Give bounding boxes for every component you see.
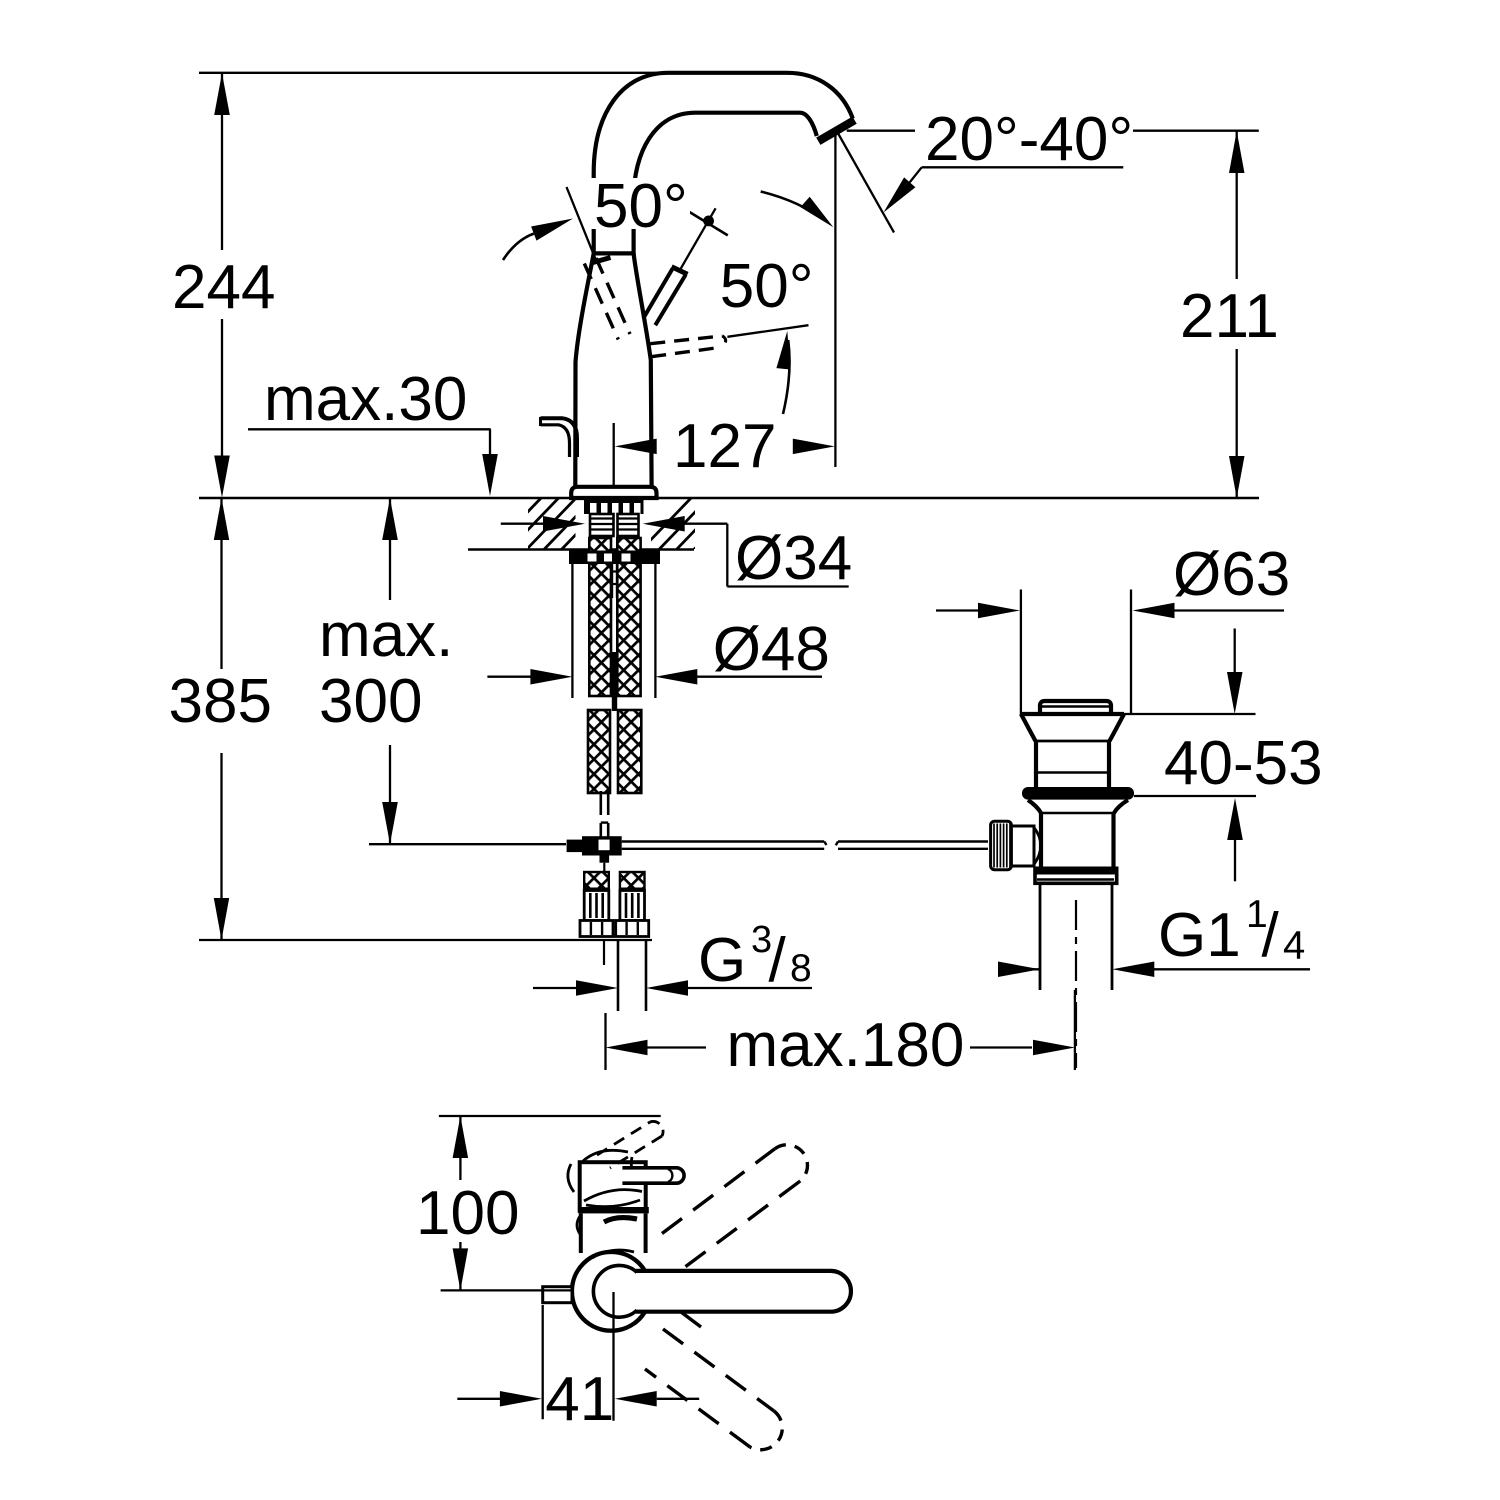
vertical reference line from nozzle: [834, 132, 836, 468]
spout inner contour: [634, 113, 817, 255]
front view hub circle: [593, 1265, 645, 1317]
pop-up rod between hoses: [611, 564, 613, 598]
svg-text:G1: G1: [1158, 901, 1241, 970]
pop-up rod lower tube: [599, 791, 602, 815]
lever cross mark: [687, 211, 728, 236]
dimension 41: [542, 1305, 544, 1419]
dashed lever (horizontal position): [650, 336, 722, 344]
dimension 211: [1236, 131, 1238, 279]
drain flange: [1021, 712, 1124, 716]
front view handle capsule: [636, 1271, 851, 1312]
svg-text:4: 4: [1283, 924, 1305, 968]
drain tail pipe: [1039, 883, 1042, 990]
mounting washer and nut: [569, 551, 660, 565]
svg-text:Ø63: Ø63: [1173, 540, 1290, 609]
svg-text:41: 41: [545, 1365, 614, 1434]
svg-text:244: 244: [172, 253, 275, 322]
dimension 127: [613, 423, 615, 486]
counter top reference line: [199, 497, 1259, 500]
lower reference line (hose ends): [199, 939, 652, 941]
svg-text:100: 100: [416, 1179, 519, 1248]
svg-text:/: /: [1262, 901, 1280, 970]
supply hoses lower section: [588, 710, 610, 793]
nozzle angle reference line: [837, 132, 894, 233]
front view outer ring: [572, 1252, 651, 1331]
label 50-deg spout swivel: [586, 178, 690, 229]
svg-text:50°: 50°: [594, 172, 688, 241]
dimension dia-48: [487, 676, 532, 678]
threaded stud right: [618, 514, 639, 536]
svg-text:G: G: [698, 926, 746, 995]
dimension G1 1/4: [1000, 968, 1040, 970]
svg-text:/: /: [769, 926, 787, 995]
svg-text:Ø34: Ø34: [735, 524, 852, 593]
svg-text:Ø48: Ø48: [713, 615, 830, 684]
pop-up rod knob (hook): [541, 418, 578, 457]
spout aerator face: [818, 120, 854, 141]
deck underside line: [468, 548, 694, 551]
front view body: [580, 1162, 646, 1211]
drain ext lines dia-63: [1020, 590, 1022, 716]
drain collar under seal: [1028, 800, 1041, 813]
svg-text:max.30: max.30: [264, 365, 467, 434]
svg-text:127: 127: [673, 412, 776, 481]
spout outer contour: [594, 73, 853, 255]
front view dashed lever up: [597, 1122, 650, 1155]
dimension dia-63: [936, 609, 979, 611]
pop-up linkage T-joint: [582, 836, 622, 855]
faucet body contour: [575, 253, 593, 486]
dashed lever (tilted position): [596, 258, 630, 334]
dimension 385: [220, 498, 222, 669]
drain plug cap: [1040, 701, 1111, 714]
hose tail pipe: [603, 940, 605, 965]
lever leader line: [679, 208, 715, 271]
front view dashed handle down-right: [663, 1329, 774, 1411]
deck slab hatching: [490, 496, 631, 551]
drain rubber seal: [1022, 787, 1134, 800]
front view sketch curves: [583, 1150, 628, 1161]
front view dashed handle up-right: [662, 1149, 775, 1234]
drain valve body: [1039, 813, 1043, 869]
svg-text:50°: 50°: [720, 252, 814, 321]
drain bottom collar: [1035, 868, 1117, 883]
threaded stud left: [590, 514, 614, 536]
spout neck line: [592, 251, 635, 255]
lever handle (solid): [643, 269, 672, 319]
svg-text:385: 385: [169, 667, 272, 736]
front view lever: [622, 1168, 684, 1183]
hose end fitting left: [584, 872, 609, 889]
dimension max.300: [389, 498, 391, 600]
svg-text:20°-40°: 20°-40°: [925, 105, 1133, 174]
svg-text:300: 300: [319, 667, 422, 736]
front view pull rod tab: [543, 1287, 572, 1303]
svg-text:40-53: 40-53: [1164, 729, 1323, 798]
svg-text:8: 8: [790, 947, 812, 990]
faucet base plate: [571, 487, 656, 498]
dimension 40-53: [1124, 713, 1256, 715]
drain adjuster knob: [991, 821, 1012, 870]
dimension G3/8: [533, 987, 578, 989]
svg-text:max.180: max.180: [727, 1011, 965, 1080]
horizontal rod to drain: [622, 840, 825, 842]
dimension 100: [439, 1115, 661, 1117]
svg-text:211: 211: [1180, 282, 1279, 351]
label 20-40 degrees: [847, 130, 915, 132]
dia-48 extension lines: [571, 560, 573, 698]
supply hoses upper section: [589, 538, 611, 696]
svg-text:max.: max.: [319, 601, 453, 670]
dimension max.180: [604, 1013, 606, 1070]
drain neck: [1034, 741, 1038, 788]
dimension dia-34: [501, 523, 543, 525]
mounting shank block: [584, 499, 644, 515]
dimension 244: [199, 72, 668, 74]
hose end fitting right: [620, 872, 645, 889]
